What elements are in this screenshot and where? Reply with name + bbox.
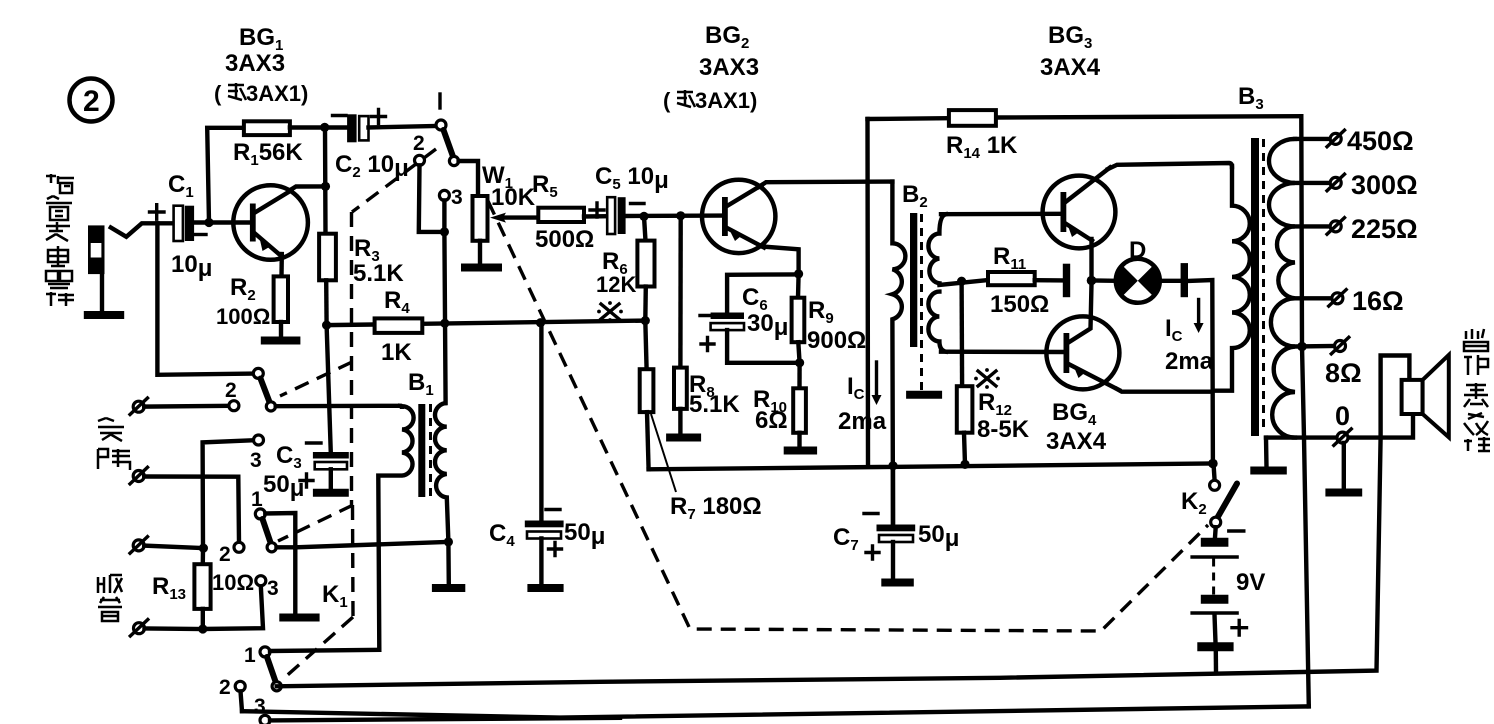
- ground (B3 core): [1250, 467, 1287, 475]
- svg-text:225Ω: 225Ω: [1351, 214, 1418, 244]
- terminal (radio upper): [130, 537, 148, 554]
- dashed link: W1 to K2 long path: [488, 201, 1208, 631]
- ground (W1): [461, 264, 502, 272]
- resistor R4 1K: [375, 287, 423, 366]
- K1 pole C contact 3b: [256, 576, 266, 586]
- ground (K1 pole C): [279, 614, 319, 622]
- svg-text:10μ: 10μ: [171, 251, 212, 282]
- wire: BG3 collector to B3 primary: [1108, 163, 1232, 169]
- wire: down to bias rail and B1 secondary: [444, 232, 445, 403]
- svg-text:(: (: [214, 81, 222, 106]
- dashed link: K1 pole A to vertical: [352, 149, 436, 212]
- label: microphone/phonograph input (fake CJK strokes): [46, 174, 74, 306]
- wire: negative supply rail: [649, 464, 1213, 470]
- capacitor C5 10u: [590, 163, 669, 234]
- transformer B3 primary: [1213, 166, 1250, 391]
- resistor R6 12K: [596, 216, 655, 320]
- lamp plate left: [1063, 264, 1070, 298]
- K1 pole B arm: [261, 379, 270, 403]
- wire: C2 right to K1 pole A contact 1: [369, 126, 436, 128]
- transformer B1 core: [418, 404, 425, 497]
- ground (B2 screen): [906, 391, 942, 399]
- svg-text:16Ω: 16Ω: [1352, 286, 1404, 316]
- node: negative rail / K2: [1208, 459, 1218, 469]
- svg-text:100Ω: 100Ω: [216, 304, 270, 329]
- svg-text:500Ω: 500Ω: [535, 226, 594, 253]
- transformer B1 primary: [378, 406, 413, 650]
- svg-text:8Ω: 8Ω: [1325, 358, 1362, 388]
- node: contacts 2/3 join: [440, 227, 449, 236]
- ground (R10): [784, 447, 817, 455]
- node: R6 top: [639, 212, 648, 221]
- svg-text:R156K: R156K: [233, 139, 303, 169]
- wire: bias rail R4 row: [327, 321, 646, 326]
- wire: B2 center tap to R11: [939, 280, 988, 285]
- wire: R14 feed riser: [865, 119, 870, 466]
- wire: C1 to BG1 base: [194, 220, 250, 224]
- resistor R13 10ohm: [152, 548, 254, 629]
- capacitor C1 10u: [150, 171, 213, 282]
- transistor BG4: [1046, 284, 1119, 390]
- microphone jack symbol: [88, 225, 105, 311]
- resistor R2 100ohm: [216, 254, 288, 336]
- node: R9 bottom / R10 / C6: [795, 358, 804, 367]
- resistor R10 6ohm: [753, 363, 806, 447]
- K1 pole C contact 3: [254, 435, 264, 445]
- ground (B1 secondary): [432, 584, 465, 592]
- transformer B3 secondary: [1269, 139, 1295, 438]
- resistor R11 150ohm: [988, 243, 1049, 318]
- lamp plate right: [1181, 263, 1188, 297]
- K1 pole B open contact: [229, 401, 239, 411]
- transformer B2 secondary: [928, 214, 946, 352]
- dashed link: to pole D: [283, 617, 353, 679]
- tap wire 225 ohm: [1295, 224, 1331, 228]
- svg-text:2: 2: [413, 132, 425, 155]
- svg-text:3AX3: 3AX3: [699, 54, 759, 81]
- asterisk mark (R6): [597, 301, 623, 322]
- svg-text:5.1K: 5.1K: [353, 260, 404, 287]
- ground (R2 emitter): [261, 337, 301, 345]
- ground (microphone): [84, 311, 124, 319]
- terminal 8 ohm: [1331, 337, 1349, 354]
- wire: contact 2 drop: [241, 691, 243, 711]
- terminal (line in upper): [130, 398, 148, 415]
- node: lamp / BG3 emitter / BG4 collector: [1087, 276, 1097, 286]
- current label Ic 2ma (BG4): [1165, 300, 1214, 376]
- wire: bottom rail A (pole D hub to speaker): [277, 356, 1410, 687]
- svg-text:0: 0: [1335, 401, 1350, 431]
- svg-text:9V: 9V: [1236, 569, 1265, 596]
- K1 pole C hub: [267, 543, 276, 552]
- svg-text:C5 10μ: C5 10μ: [595, 163, 669, 194]
- svg-text:R7 180Ω: R7 180Ω: [670, 493, 762, 523]
- svg-text:1K: 1K: [381, 339, 412, 366]
- svg-text:5.1K: 5.1K: [689, 391, 740, 418]
- svg-text:300Ω: 300Ω: [1351, 170, 1418, 200]
- wire: contact 2 down to node: [419, 165, 439, 232]
- wire: BG2 collector to B2 primary: [759, 182, 892, 187]
- wire: R1 left leg: [207, 128, 244, 223]
- transistor BG3: [1043, 168, 1116, 249]
- wire: bottom rail B to speaker-tap riser: [242, 706, 1309, 717]
- figure number badge 2: [70, 79, 113, 122]
- transformer B3 core: [1251, 138, 1259, 436]
- K1 pole B hub: [266, 402, 275, 411]
- wire: bottom rail from contact 3: [270, 718, 620, 721]
- tap wire 8 ohm: [1295, 344, 1335, 349]
- resistor R14 1K: [946, 110, 1018, 162]
- K1 pole A contact 1 lead: [438, 94, 441, 108]
- dashed link: to pole C: [278, 505, 353, 541]
- wire: up and over to contact 3: [203, 440, 253, 548]
- wire: jack hook to C1: [111, 223, 174, 237]
- svg-text:3: 3: [250, 449, 262, 472]
- wire: B2 secondary top to BG3 base: [941, 212, 1060, 217]
- node: R12 on negative rail: [960, 460, 969, 469]
- switch K2 arm: [1218, 484, 1238, 518]
- K1 pole D contact 2: [235, 681, 245, 691]
- capacitor C4 50u: [489, 323, 605, 584]
- speaker cone: [1423, 355, 1449, 437]
- label (or 3AX1) (BG2): [663, 88, 757, 113]
- node: center tap / R12: [957, 277, 966, 286]
- wire: pole C hub to ground leg: [277, 545, 296, 549]
- node: R3/R4 junction: [322, 321, 331, 330]
- svg-text:8-5K: 8-5K: [977, 416, 1030, 443]
- wire: pole B hub to B1 primary top: [276, 404, 400, 409]
- wire: BG2 emitter to R9: [762, 247, 799, 274]
- label: monitor and talk (CJK): [1464, 329, 1490, 451]
- wire: input node down to K1 pole B contact: [157, 223, 252, 374]
- wire: BG3 emitter down to lamp node: [1089, 239, 1093, 281]
- wire: BG4 emitter to supply riser: [1117, 389, 1212, 392]
- svg-text:10K: 10K: [491, 184, 536, 211]
- wire: 0 rail stub to ground: [1264, 438, 1269, 467]
- resistor R8 5.1K: [674, 216, 740, 435]
- resistor R3 5.1K: [319, 234, 404, 287]
- dashed link: to pole B: [280, 362, 352, 396]
- svg-text:150Ω: 150Ω: [990, 291, 1049, 318]
- ground (R8): [666, 434, 701, 442]
- label: line circuit (CJK): [98, 418, 130, 470]
- wire: top feedback rail: [868, 116, 1302, 119]
- capacitor C7 50u: [833, 461, 959, 578]
- capacitor C3 50u: [263, 325, 349, 502]
- K1 pole D contact 3: [260, 715, 270, 724]
- wire: radio upper to node: [144, 546, 203, 549]
- wire: node to lamp and lamp to right plate: [1092, 278, 1181, 283]
- svg-text:3AX1): 3AX1): [695, 88, 757, 113]
- svg-text:450Ω: 450Ω: [1347, 126, 1414, 156]
- node: C4 on bias rail: [536, 318, 545, 327]
- resistor R7 180ohm: [640, 321, 654, 470]
- node: 8 ohm tap on riser: [1297, 342, 1307, 352]
- node: bias rail end / R6 R7: [641, 316, 650, 325]
- svg-text:1: 1: [244, 644, 256, 667]
- terminal (line in lower): [130, 467, 148, 484]
- K1 pole A wiper hub: [449, 156, 458, 165]
- node: R1/C2/collector riser: [320, 123, 329, 132]
- tap wire 300 ohm: [1295, 181, 1331, 185]
- transistor BG1: [233, 185, 308, 260]
- node: collector tee: [321, 182, 330, 191]
- wire: C5 to BG2 base: [626, 213, 722, 218]
- tap wire 450 ohm: [1295, 137, 1331, 141]
- resistor R1 56K: [233, 121, 303, 169]
- wire: terminal 0 ground stub: [1342, 443, 1346, 488]
- K1 pole A contact 3: [439, 190, 449, 200]
- terminal 450 ohm: [1327, 130, 1345, 147]
- node: B1 secondary bottom / K1 wire: [444, 537, 453, 546]
- wire: to pole C contact 2: [144, 477, 239, 543]
- svg-text:3AX4: 3AX4: [1046, 428, 1107, 455]
- transformer B2 screen dashed line: [920, 214, 923, 391]
- wire: K2 stub: [1214, 464, 1215, 481]
- wire: R11 right to lamp plate: [1035, 278, 1063, 283]
- wire: R3 bottom to R4 node: [324, 280, 329, 325]
- node: emitter / C6 / R9: [794, 269, 803, 278]
- wire: riser C2-node to R3 top: [323, 128, 328, 234]
- K1 pole C arm: [263, 519, 271, 543]
- transistor BG2: [702, 180, 775, 253]
- resistor R12 8.5K: [957, 281, 1030, 464]
- wire: pole C hub row to B1 secondary bottom: [295, 542, 448, 547]
- wire: to pole B open contact: [144, 404, 228, 409]
- svg-text:2ma: 2ma: [838, 408, 887, 435]
- svg-text:3: 3: [267, 577, 279, 600]
- svg-text:6Ω: 6Ω: [755, 407, 788, 434]
- wire: R1 right to C2 node: [290, 125, 347, 129]
- svg-text:3AX3: 3AX3: [225, 50, 285, 77]
- wire: R5 to C5: [584, 214, 607, 219]
- wire: 0 rail: [1266, 414, 1413, 438]
- svg-text:12K: 12K: [596, 272, 636, 297]
- wire: pole C contact loop: [265, 513, 295, 614]
- label (or 3AX1): [214, 81, 308, 106]
- terminal 300 ohm: [1327, 174, 1345, 191]
- label: radio (CJK): [98, 575, 122, 621]
- ground (C3): [313, 489, 349, 497]
- svg-text:3AX1): 3AX1): [246, 81, 308, 106]
- indicator lamp D: [1116, 237, 1160, 303]
- svg-text:3: 3: [451, 186, 463, 209]
- node: R13 bottom: [198, 624, 207, 633]
- svg-text:C2 10μ: C2 10μ: [335, 151, 409, 182]
- node: R8 top: [676, 211, 685, 220]
- wire: radio lower to node: [145, 626, 204, 631]
- resistor R5 500ohm: [532, 171, 594, 253]
- tap wire 16 ohm: [1295, 296, 1332, 300]
- wire: lamp right to supply riser: [1188, 280, 1213, 464]
- svg-text:50μ: 50μ: [263, 471, 304, 502]
- svg-text:(: (: [663, 88, 671, 113]
- transformer B1 secondary: [435, 403, 449, 584]
- asterisk mark (R12): [974, 368, 1000, 389]
- terminal 0: [1334, 429, 1352, 446]
- transformer B2 primary: [892, 182, 905, 526]
- wire: W1 bottom: [478, 241, 482, 264]
- svg-text:2: 2: [225, 379, 237, 402]
- K1 pole A moving arm: [444, 130, 454, 157]
- terminal 16 ohm: [1329, 290, 1347, 307]
- wire: B2 secondary bottom to BG4 base: [941, 350, 1063, 355]
- capacitor C6 30u: [700, 274, 800, 362]
- terminal (radio lower): [130, 620, 148, 637]
- svg-text:50μ: 50μ: [918, 521, 959, 552]
- wire: pole A hub to W1 top: [459, 161, 478, 196]
- wire: contact 3 stub: [442, 200, 446, 232]
- wire: contact 1 to B1 primary bottom: [270, 650, 379, 651]
- svg-text:30μ: 30μ: [747, 310, 788, 341]
- svg-text:D: D: [1129, 237, 1146, 264]
- K1 pole A contact 2: [415, 155, 425, 165]
- transformer B1 core dashed line: [429, 404, 432, 497]
- svg-text:2: 2: [219, 676, 231, 699]
- ground (C4): [527, 584, 563, 592]
- potentiometer W1 10K: [473, 162, 541, 241]
- svg-text:2: 2: [83, 85, 100, 118]
- K1 pole C contact 2: [234, 542, 244, 552]
- K1 pole B fixed contact: [253, 368, 263, 378]
- battery 9V: [1190, 527, 1265, 672]
- K1 pole D hub: [272, 682, 281, 691]
- svg-text:10Ω: 10Ω: [212, 570, 254, 595]
- transformer B3 core dashed line: [1262, 139, 1265, 430]
- ground (terminal 0): [1325, 489, 1362, 497]
- node: radio/R13 top: [199, 544, 208, 553]
- wire: BG1 collector to riser: [289, 186, 326, 190]
- wire: node to contact 3b: [203, 586, 263, 629]
- ground (C7): [881, 579, 914, 587]
- leader line R7: [651, 414, 676, 492]
- switch K2 top contact: [1210, 480, 1220, 490]
- svg-text:50μ: 50μ: [564, 519, 605, 550]
- wire: speaker-tap riser up to R14 rail: [1301, 116, 1309, 706]
- speaker driver box: [1402, 380, 1423, 414]
- resistor R9 900ohm: [792, 274, 867, 363]
- svg-text:R14 1K: R14 1K: [946, 132, 1018, 162]
- node: rail crossing: [440, 319, 449, 328]
- K1 pole D contact 1: [260, 647, 270, 657]
- node: BG1 base / R1 left: [204, 218, 213, 227]
- transformer B2 core: [910, 213, 917, 347]
- svg-text:2ma: 2ma: [1165, 348, 1214, 375]
- current label Ic 2ma (BG2): [838, 362, 887, 435]
- K1 pole D arm: [267, 657, 276, 682]
- switch K2 bottom contact: [1211, 517, 1221, 527]
- svg-text:900Ω: 900Ω: [807, 327, 866, 354]
- K1 pole C fixed contact: [255, 509, 265, 519]
- K1 pole A contact 1: [436, 120, 446, 130]
- svg-text:2: 2: [219, 543, 231, 566]
- terminal 225 ohm: [1327, 218, 1345, 235]
- dashed link: K1 vertical shaft: [352, 212, 354, 617]
- capacitor C2 10u: [333, 110, 409, 183]
- svg-text:3AX4: 3AX4: [1040, 54, 1101, 81]
